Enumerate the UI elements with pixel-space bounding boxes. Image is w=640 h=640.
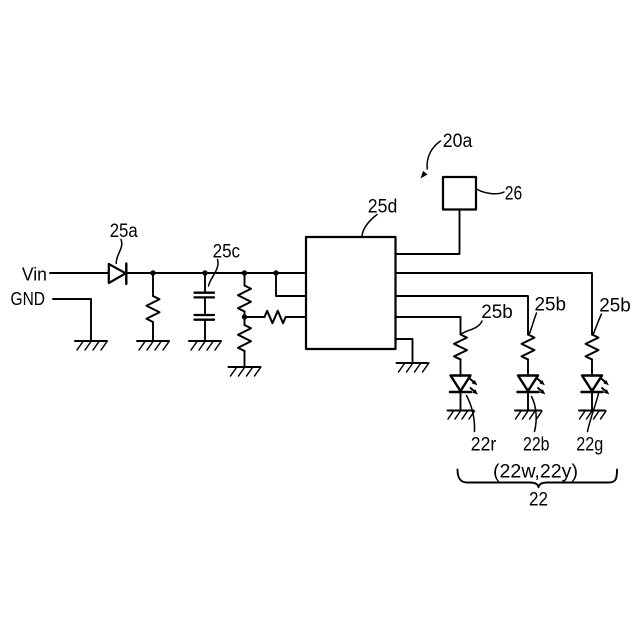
- resistor R4: [265, 311, 286, 323]
- leader 25c: [209, 260, 219, 287]
- svg-text:25c: 25c: [213, 241, 241, 262]
- resistor R1: [147, 296, 160, 322]
- wire led r top: [460, 360, 462, 377]
- svg-text:Vin: Vin: [22, 265, 47, 285]
- wire main rail: [126, 272, 306, 274]
- svg-text:25b: 25b: [599, 296, 631, 317]
- diode 25a: [109, 264, 127, 285]
- junction D: [273, 270, 278, 275]
- wire R2 top: [244, 273, 246, 286]
- wire R1 bottom: [152, 322, 154, 341]
- svg-text:22g: 22g: [576, 435, 603, 456]
- wire led r bottom: [460, 392, 462, 411]
- leader 22r: [467, 396, 475, 432]
- svg-text:20a: 20a: [443, 131, 473, 152]
- LED 22b: [518, 376, 546, 395]
- wire pin4 to branch r: [396, 317, 461, 335]
- junction B: [202, 270, 207, 275]
- leader 25a: [116, 240, 122, 264]
- wire GND input: [53, 299, 91, 341]
- LED 22r: [450, 376, 478, 395]
- wire R4 right: [286, 316, 306, 318]
- leader 25d: [362, 215, 377, 237]
- ground led b: [515, 411, 542, 420]
- leader 25b b: [530, 313, 537, 334]
- resistor 25b b: [522, 335, 535, 360]
- node E: [242, 314, 247, 319]
- resistor 25b g: [586, 335, 599, 360]
- resistor 25b r: [454, 335, 467, 360]
- ground GND input: [75, 341, 107, 350]
- leader 25b r: [462, 321, 482, 334]
- resistor R3: [238, 325, 251, 351]
- IC 25d: [306, 237, 396, 349]
- resistor R2: [238, 286, 251, 312]
- wire pin2 to branch g: [396, 273, 593, 335]
- wire Vin input: [50, 272, 108, 274]
- ground R1: [137, 341, 169, 350]
- leader 26: [477, 189, 505, 194]
- wire R3 top: [244, 317, 246, 325]
- wire R3 bottom: [244, 351, 246, 367]
- wire R2 bottom: [244, 312, 246, 318]
- ground IC: [397, 363, 429, 372]
- svg-text:25d: 25d: [368, 197, 398, 218]
- wire pin1 to 26: [396, 210, 460, 255]
- svg-text:22b: 22b: [523, 435, 550, 456]
- capacitor 25c: [195, 293, 215, 320]
- wire led g top: [591, 360, 593, 377]
- svg-text:25b: 25b: [481, 302, 513, 323]
- wire led b top: [527, 360, 529, 377]
- wire C bottom: [204, 320, 206, 341]
- leader 22b: [532, 397, 537, 432]
- wire bottom pin: [396, 339, 413, 363]
- svg-text:(22w,22y): (22w,22y): [493, 462, 578, 483]
- ground led g: [579, 411, 606, 420]
- wire led g bottom: [591, 392, 593, 411]
- svg-text:25a: 25a: [110, 221, 138, 242]
- leader 22g: [588, 394, 599, 432]
- ground R3: [229, 367, 261, 376]
- wire C top: [204, 273, 206, 293]
- svg-text:25b: 25b: [535, 295, 567, 316]
- wire R1 top: [152, 273, 154, 296]
- ground led r: [448, 411, 475, 420]
- wire led b bottom: [527, 392, 529, 411]
- svg-text:22: 22: [529, 490, 548, 511]
- junction C: [242, 270, 247, 275]
- wire pin row2: [276, 273, 306, 296]
- wire R4 left: [245, 316, 265, 318]
- junction A: [150, 270, 155, 275]
- arrow 20a: [421, 141, 441, 179]
- box 26: [443, 177, 476, 210]
- brace 22: [458, 470, 618, 488]
- leader 25b g: [594, 314, 602, 334]
- ground C: [189, 341, 221, 350]
- wire pin3 to branch b: [396, 296, 529, 335]
- LED 22g: [582, 376, 610, 395]
- svg-text:GND: GND: [11, 289, 46, 309]
- svg-text:26: 26: [505, 184, 523, 205]
- svg-text:22r: 22r: [471, 435, 497, 456]
